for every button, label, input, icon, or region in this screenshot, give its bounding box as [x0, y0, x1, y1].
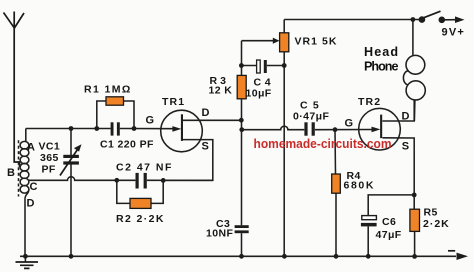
- R3 label: [209, 75, 233, 97]
- switch S1: [411, 11, 465, 23]
- wire: bottom ground rail: [20, 251, 468, 260]
- node: C2 right / TR1 source: [161, 178, 166, 183]
- rail junction dots: [23, 254, 417, 259]
- svg-text:10μF: 10μF: [246, 88, 272, 100]
- transistor TR1 (FET): [161, 110, 242, 180]
- svg-text:D: D: [402, 110, 411, 122]
- svg-text:A: A: [27, 142, 36, 154]
- R4 label: [344, 170, 376, 192]
- svg-text:2·2K: 2·2K: [423, 218, 450, 230]
- coil core (dashed): [18, 140, 20, 196]
- headphone: [403, 20, 425, 122]
- svg-text:10NF: 10NF: [206, 228, 233, 240]
- node: R4 branch: [333, 127, 338, 132]
- node: tank junction: [69, 126, 74, 131]
- node: C2 left: [114, 178, 119, 183]
- R5 label: [423, 207, 450, 231]
- resistor R5 (2.2K): [410, 195, 420, 257]
- headphone label: [364, 45, 399, 73]
- ground: [16, 256, 39, 268]
- svg-text:9V+: 9V+: [442, 27, 465, 39]
- node: VR1 bottom / C4 right: [282, 63, 287, 68]
- wire: C2 bus y=180.3 with hop over VC1 line: [29, 177, 213, 181]
- svg-text:C6: C6: [382, 216, 396, 228]
- svg-text:680K: 680K: [344, 180, 376, 192]
- svg-text:B: B: [7, 167, 16, 179]
- svg-text:VC1: VC1: [39, 141, 61, 153]
- svg-text:C2 47 NF: C2 47 NF: [116, 162, 173, 174]
- svg-text:R5: R5: [424, 207, 438, 219]
- svg-text:Head: Head: [364, 45, 399, 59]
- C4 label: [246, 77, 272, 100]
- svg-text:C: C: [30, 181, 39, 193]
- node: R1 left: [94, 126, 99, 131]
- svg-text:PF: PF: [42, 164, 56, 176]
- svg-text:C1 220 PF: C1 220 PF: [100, 139, 154, 151]
- node: C4 left: [239, 63, 244, 68]
- svg-text:12 K: 12 K: [209, 85, 233, 97]
- svg-text:homemade-circuits.com: homemade-circuits.com: [254, 136, 392, 151]
- potentiometer VR1 (5K): [280, 20, 289, 257]
- wire: top supply rail: [284, 19, 422, 21]
- capacitor C6 (47uF electrolytic): [361, 195, 414, 256]
- VC1 value label: [39, 141, 61, 176]
- C6 label: [376, 216, 402, 241]
- svg-text:Phone: Phone: [364, 59, 398, 73]
- wire: C5 gate bus y=129.7 with hop over VR1 column: [242, 126, 373, 130]
- capacitor C1 (220 PF): [111, 122, 120, 135]
- wire: VR1 wiper: [242, 38, 280, 44]
- node: drain junction: [239, 118, 244, 123]
- svg-text:VR1 5K: VR1 5K: [295, 35, 338, 47]
- svg-text:TR2: TR2: [358, 96, 381, 108]
- svg-text:G: G: [146, 115, 155, 127]
- svg-text:D: D: [202, 107, 211, 119]
- svg-text:R1 1MΩ: R1 1MΩ: [84, 84, 132, 96]
- node: R1 right: [132, 126, 137, 131]
- coil B (tuning coil, taps A B C D): [20, 129, 29, 257]
- svg-text:S: S: [202, 141, 210, 153]
- svg-text:0·47μF: 0·47μF: [293, 111, 329, 123]
- node: C5 branch: [239, 127, 244, 132]
- transistor TR2 (FET): [359, 100, 415, 195]
- svg-text:TR1: TR1: [162, 96, 185, 108]
- capacitor VC1 (365 PF variable): [60, 129, 82, 257]
- capacitor C5 (0.47uF): [304, 122, 314, 135]
- wire: main gate bus y=128.5: [26, 128, 173, 130]
- resistor R2 (2.2K): [117, 180, 163, 208]
- capacitor C3 (10NF): [235, 225, 249, 233]
- svg-text:365: 365: [40, 152, 59, 164]
- antenna: [4, 12, 25, 168]
- C3 label: [206, 218, 233, 240]
- svg-text:R2 2·2K: R2 2·2K: [116, 213, 165, 225]
- capacitor C4 (10uF electrolytic): [241, 60, 284, 73]
- resistor R3 (12K): [237, 75, 246, 98]
- resistor R4 (680K): [332, 130, 341, 257]
- node: source junction: [412, 193, 417, 198]
- resistor R1 (1M): [97, 97, 134, 129]
- svg-text:47μF: 47μF: [376, 229, 402, 241]
- svg-text:S: S: [402, 140, 410, 152]
- wire: drain column x=241.5: [241, 41, 243, 257]
- svg-text:D: D: [27, 198, 36, 210]
- C5 label: [293, 100, 329, 123]
- capacitor C2 (47 NF): [136, 173, 147, 189]
- svg-text:G: G: [345, 118, 354, 130]
